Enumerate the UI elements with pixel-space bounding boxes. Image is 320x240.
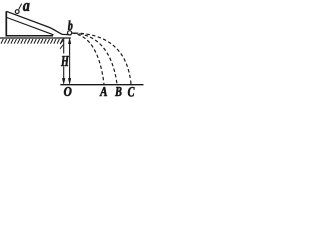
label a [23, 3, 30, 11]
trajectory C dashed [72, 33, 131, 84]
H label background [61, 54, 69, 67]
ball a [15, 10, 19, 14]
trajectory B dashed [72, 33, 117, 84]
table edge vertical line with bottom arrow [63, 39, 65, 80]
label A [100, 87, 108, 96]
incline wedge bottom edge [6, 35, 54, 37]
incline wedge left edge [5, 11, 7, 36]
H top arrowhead [68, 38, 71, 43]
incline inner hypotenuse line [7, 18, 54, 35]
incline outer hypotenuse with curved exit track [6, 11, 71, 34]
ground line [60, 84, 143, 86]
label O [64, 87, 72, 96]
label H [61, 56, 69, 66]
background [0, 0, 146, 103]
table edge arrowhead [62, 78, 65, 84]
table top hatching [1, 39, 63, 44]
H dimension line [69, 43, 71, 80]
H bottom arrowhead [68, 78, 71, 84]
table top line [0, 37, 71, 39]
ball b [68, 31, 72, 35]
label C [128, 87, 135, 97]
label B [115, 87, 122, 96]
ball a leader line [19, 4, 22, 10]
table edge hatching [60, 40, 63, 49]
label b [68, 21, 73, 31]
trajectory A dashed [72, 33, 104, 84]
